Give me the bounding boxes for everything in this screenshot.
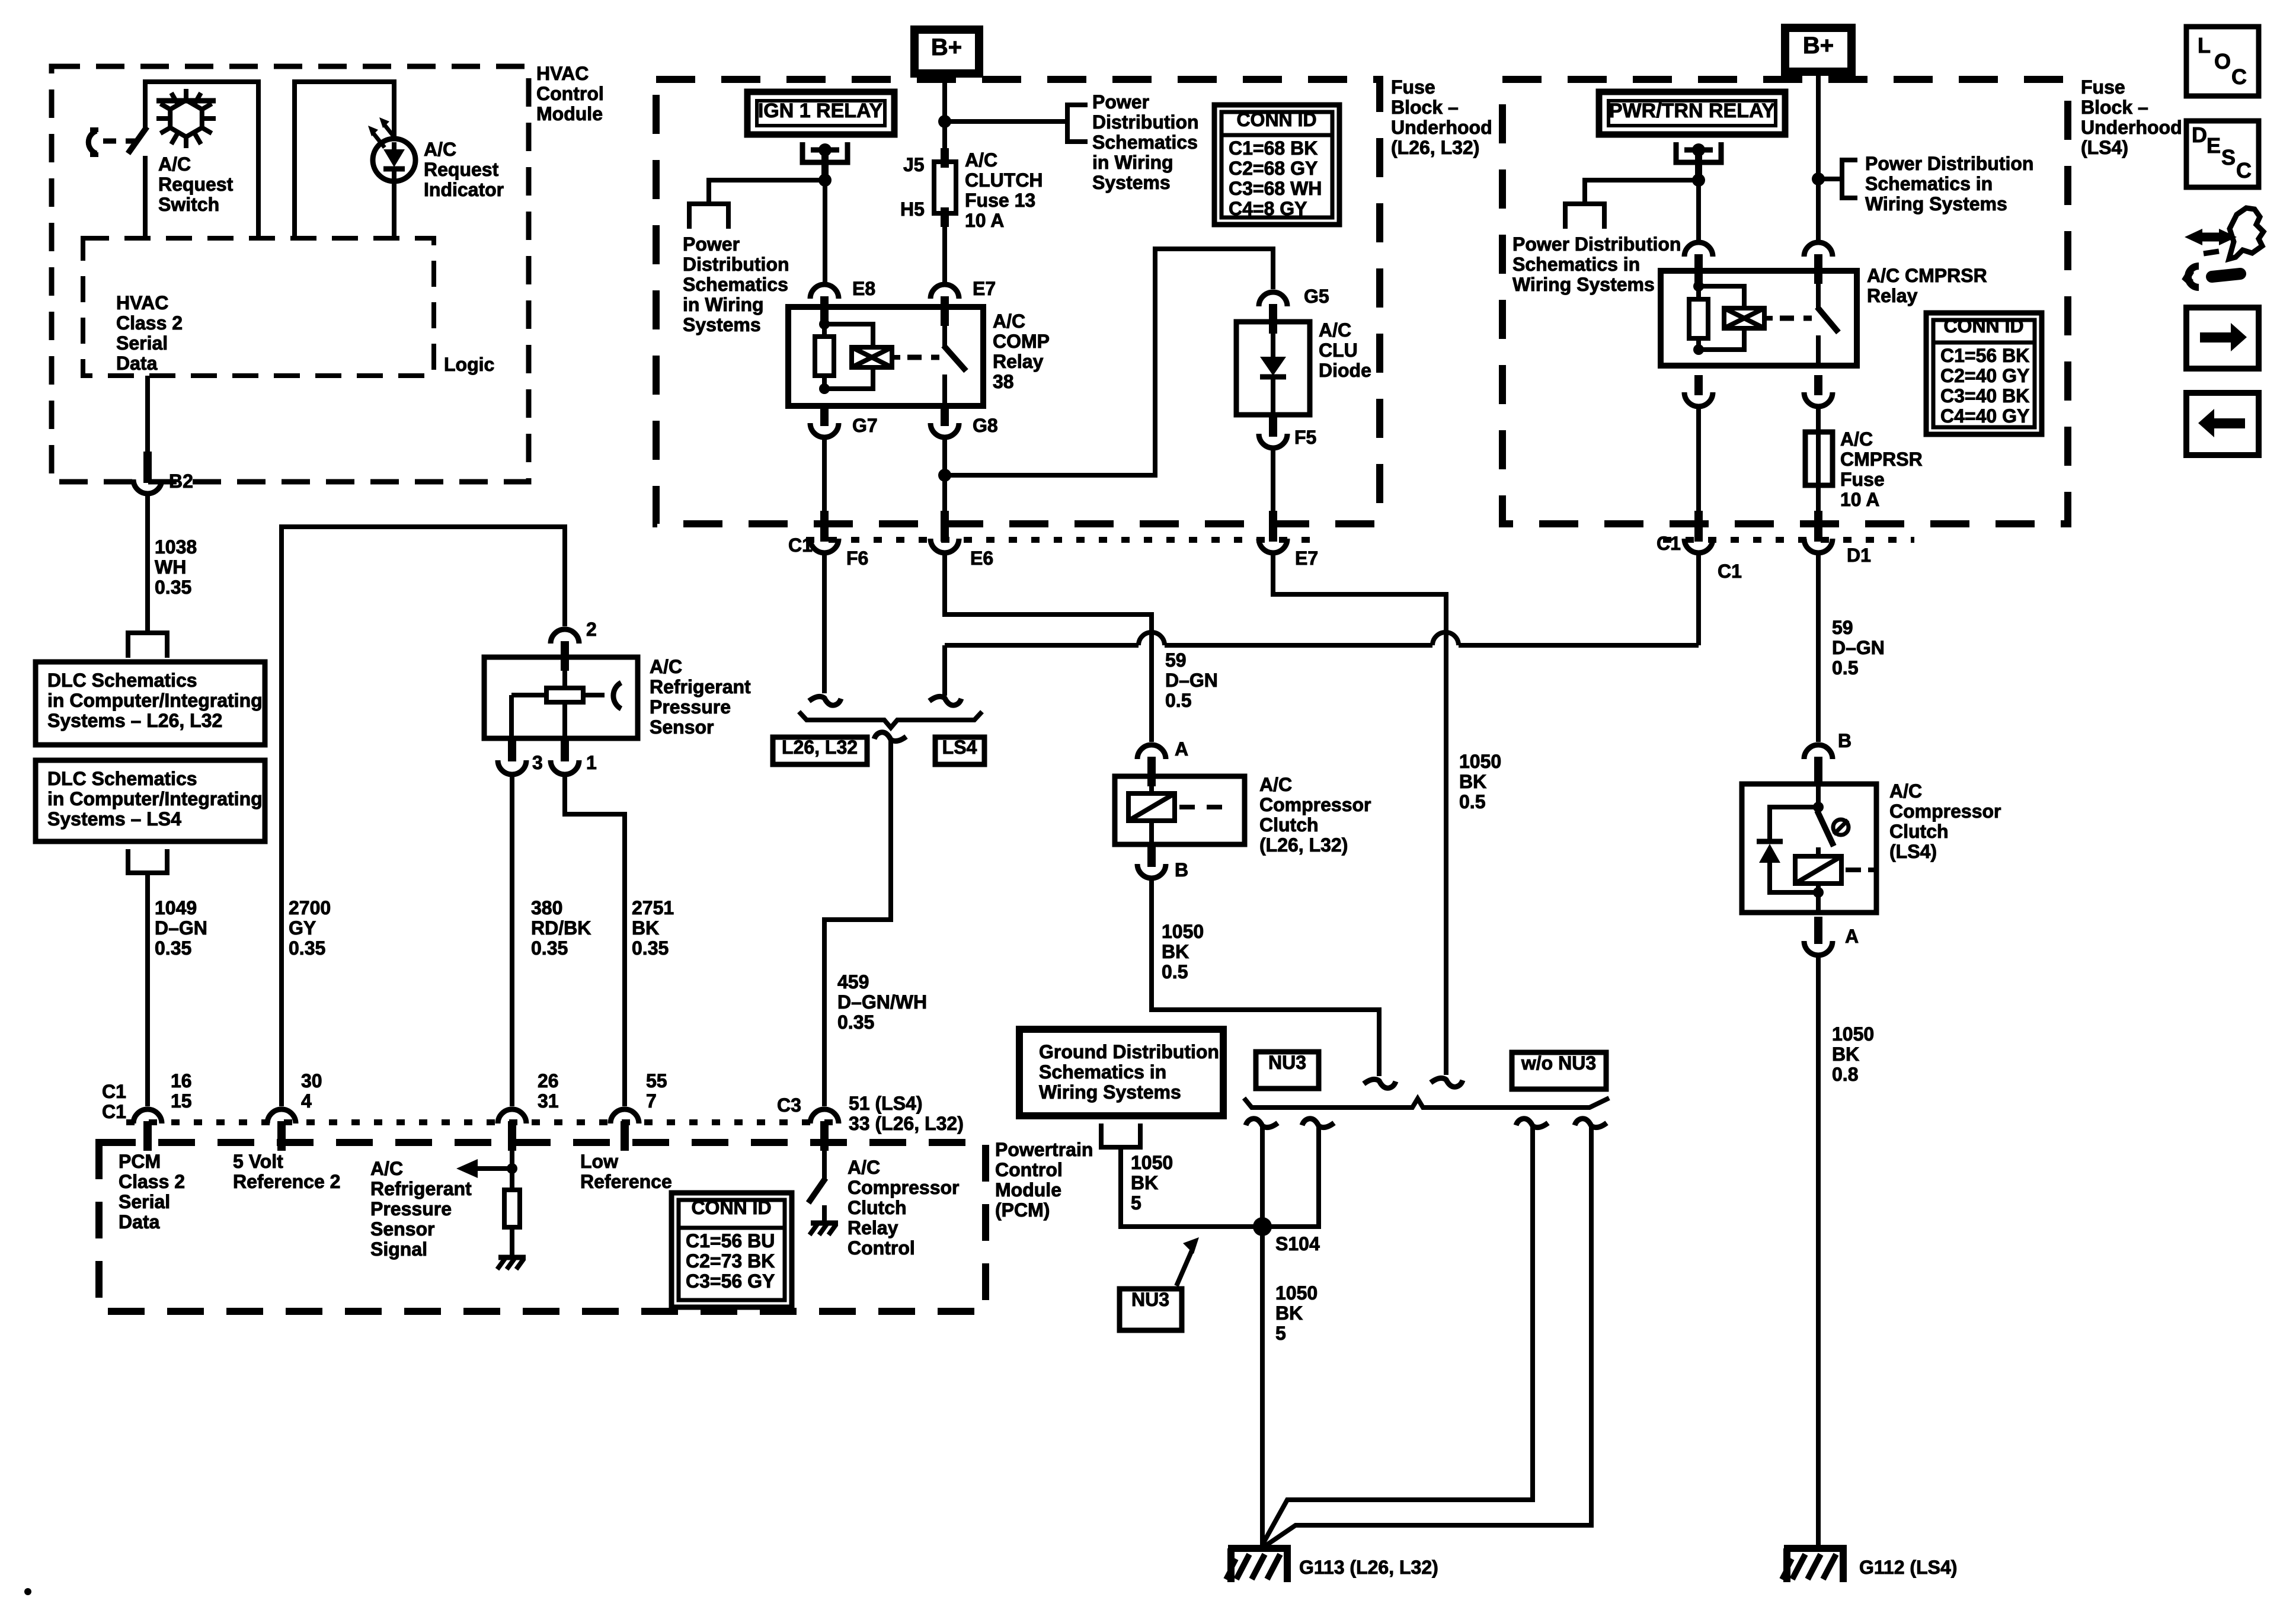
clutch LS4 coil: [1816, 847, 1821, 857]
svg-text:D1: D1: [1847, 545, 1871, 566]
ground G112: [1784, 1545, 1847, 1552]
svg-text:BK: BK: [1131, 1172, 1158, 1193]
brace NU3 selector: [1244, 1098, 1609, 1108]
svg-text:38: 38: [993, 371, 1014, 392]
svg-text:59: 59: [1832, 617, 1853, 638]
connector bracket power distribution B+: [1067, 105, 1088, 142]
svg-text:Class 2: Class 2: [119, 1171, 185, 1192]
svg-text:Underhood: Underhood: [1391, 117, 1492, 138]
HVAC Class 2 Serial Data logic dashed box: [83, 238, 434, 376]
svg-text:5: 5: [1275, 1323, 1286, 1344]
svg-text:L: L: [2198, 33, 2211, 57]
svg-text:A/C: A/C: [650, 656, 682, 677]
svg-text:C: C: [2231, 65, 2247, 89]
CONN ID box PCM: [671, 1193, 792, 1307]
svg-text:15: 15: [171, 1090, 192, 1112]
CMPRSR relay coil: [1693, 281, 1704, 292]
wire E7 to w/o NU3 1050 BK 0.5: [1273, 554, 1446, 1075]
svg-text:Wiring Systems: Wiring Systems: [1512, 274, 1655, 295]
svg-text:59: 59: [1165, 649, 1187, 671]
svg-text:HVAC: HVAC: [116, 292, 168, 313]
clutch coil L26: [1149, 786, 1154, 793]
pin C1 16/15 PCM: [143, 1121, 152, 1151]
connector hook F6 L26 L32: [809, 696, 841, 705]
connector row PCM: [126, 1119, 842, 1125]
svg-text:Signal: Signal: [370, 1238, 427, 1260]
PCM sensor signal arrow and resistor: [510, 1147, 514, 1190]
svg-text:in Wiring: in Wiring: [683, 294, 764, 315]
svg-text:51 (LS4): 51 (LS4): [849, 1093, 922, 1114]
svg-text:HVAC: HVAC: [536, 63, 589, 84]
svg-text:Control: Control: [848, 1237, 915, 1259]
svg-text:C2=40 GY: C2=40 GY: [1940, 365, 2029, 386]
svg-text:CONN ID: CONN ID: [1943, 315, 2023, 337]
icon wrench: [2186, 266, 2240, 287]
DLC Schematics box L26 L32: [36, 662, 265, 745]
svg-text:Schematics: Schematics: [683, 274, 788, 295]
svg-text:0.5: 0.5: [1162, 961, 1188, 982]
svg-text:Schematics in: Schematics in: [1512, 254, 1640, 275]
ground internal PCM sensor: [498, 1255, 526, 1260]
svg-text:(PCM): (PCM): [995, 1199, 1050, 1221]
clutch LS4 internal junction top: [1816, 786, 1821, 809]
svg-text:F6: F6: [846, 548, 868, 569]
svg-text:G5: G5: [1304, 286, 1329, 307]
connector bracket to DLC schematics: [128, 633, 167, 658]
connector row fuse block LS4 bottom: [1663, 537, 1914, 543]
svg-text:2: 2: [586, 619, 597, 640]
A/C Compressor Clutch LS4 box: [1742, 784, 1876, 913]
connector cup NU3 branch 2: [1302, 1119, 1334, 1128]
svg-text:Diode: Diode: [1319, 360, 1371, 381]
svg-text:3: 3: [532, 752, 543, 773]
svg-text:C: C: [2236, 158, 2252, 183]
svg-text:in Wiring: in Wiring: [1092, 152, 1173, 173]
svg-text:Underhood: Underhood: [2081, 117, 2182, 138]
svg-text:1050: 1050: [1459, 751, 1501, 772]
svg-text:C3: C3: [777, 1094, 801, 1116]
svg-text:(L26, L32): (L26, L32): [1391, 137, 1479, 158]
svg-text:DLC Schematics: DLC Schematics: [47, 670, 197, 691]
svg-text:Distribution: Distribution: [683, 254, 789, 275]
NU3 callout box with arrow: [1120, 1289, 1182, 1330]
clutch LS4 switch blade: [1817, 811, 1834, 846]
wire HVAC to B2: [145, 376, 150, 452]
svg-text:NU3: NU3: [1268, 1052, 1306, 1073]
Ground Distribution Schematics box: [1019, 1029, 1223, 1116]
wire 380 RD/BK 0.35: [510, 774, 514, 1106]
svg-text:Indicator: Indicator: [424, 179, 504, 200]
svg-text:BK: BK: [1162, 941, 1189, 962]
svg-text:1050: 1050: [1832, 1023, 1874, 1045]
svg-text:C1=56 BU: C1=56 BU: [686, 1230, 775, 1251]
svg-text:0.5: 0.5: [1832, 657, 1858, 678]
pin 26/31 PCM: [508, 1121, 516, 1151]
clutch LS4 thermal symbol: [1833, 820, 1849, 835]
ground G113: [1228, 1545, 1291, 1552]
clutch LS4 diode branch: [1770, 807, 1818, 841]
svg-text:B2: B2: [169, 470, 193, 492]
svg-text:0.35: 0.35: [632, 937, 669, 959]
wire G8 junction loop to diode G5: [945, 249, 1273, 475]
svg-text:0.35: 0.35: [289, 937, 325, 959]
svg-text:IGN 1 RELAY: IGN 1 RELAY: [758, 100, 883, 122]
svg-text:C4=8 GY: C4=8 GY: [1229, 198, 1307, 219]
svg-text:D: D: [2192, 123, 2207, 147]
svg-text:DLC Schematics: DLC Schematics: [47, 768, 197, 789]
svg-text:NU3: NU3: [1131, 1289, 1169, 1310]
svg-text:O: O: [2214, 49, 2231, 73]
svg-text:Compressor: Compressor: [1889, 801, 2001, 822]
svg-text:1049: 1049: [155, 897, 197, 918]
wire 2751 BK 0.35: [565, 774, 625, 1106]
svg-text:Module: Module: [536, 103, 603, 124]
pin B2: [143, 452, 152, 483]
wire 2700 GY 0.35: [282, 527, 565, 1106]
svg-text:Pressure: Pressure: [650, 696, 731, 718]
svg-text:1038: 1038: [155, 536, 197, 558]
pin switch bottom CMPRSR relay: [1814, 375, 1822, 395]
svg-text:0.5: 0.5: [1459, 791, 1485, 812]
B+ battery feed terminal: [914, 30, 979, 73]
wire NU3 branch 2: [1262, 1126, 1319, 1227]
A/C CLU Diode box: [1236, 322, 1310, 415]
svg-text:0.35: 0.35: [155, 577, 191, 598]
pin C3 51/33 PCM: [820, 1121, 829, 1151]
svg-text:0.35: 0.35: [531, 937, 568, 959]
svg-text:BK: BK: [1275, 1302, 1303, 1324]
svg-text:Compressor: Compressor: [848, 1177, 960, 1198]
junction PWR/TRN to power distribution: [1692, 174, 1705, 187]
pin E7 relay: [941, 296, 949, 326]
IGN 1 relay feed bracket: [802, 142, 848, 162]
wire 1050 BK 5 to G113: [1260, 1227, 1265, 1548]
fuse F13 A/C CLUTCH 10A: [941, 148, 949, 168]
svg-text:Relay: Relay: [848, 1217, 898, 1238]
svg-text:Clutch: Clutch: [1889, 821, 1949, 842]
wire G7 to F6: [822, 438, 827, 512]
svg-text:Schematics in: Schematics in: [1039, 1061, 1166, 1083]
icon arrow right box: [2186, 308, 2259, 369]
CONN ID box fuse block LS4: [1926, 313, 2042, 434]
svg-text:F5: F5: [1294, 427, 1316, 448]
diode CR1 symbol: [1271, 334, 1275, 357]
label A/C Request Switch: [158, 153, 234, 215]
A/C Refrigerant Pressure Sensor B1 box: [484, 657, 638, 738]
svg-text:CONN ID: CONN ID: [691, 1197, 771, 1218]
w/o NU3 label box: [1512, 1052, 1606, 1089]
svg-text:E6: E6: [970, 548, 993, 569]
svg-text:G112 (LS4): G112 (LS4): [1859, 1557, 1957, 1578]
svg-text:A/C: A/C: [1319, 319, 1351, 341]
svg-text:10 A: 10 A: [965, 210, 1004, 231]
svg-text:B+: B+: [931, 34, 962, 60]
svg-text:Control: Control: [995, 1159, 1063, 1180]
svg-text:Pressure: Pressure: [370, 1198, 452, 1219]
pin D1: [1814, 511, 1822, 542]
pin 2 of pressure sensor: [561, 641, 569, 671]
svg-text:C3=68 WH: C3=68 WH: [1229, 178, 1322, 199]
svg-text:Schematics: Schematics: [1092, 132, 1198, 153]
label 59 D-GN 0.5 left: [1165, 649, 1218, 711]
wire B+ LS4 down: [1816, 72, 1821, 241]
svg-text:2700: 2700: [289, 897, 331, 918]
connector cup w/o NU3 branch 1: [1516, 1119, 1548, 1128]
NU3 label box: [1256, 1052, 1319, 1089]
svg-text:Distribution: Distribution: [1092, 111, 1199, 133]
A/C CMPRSR Relay box: [1661, 271, 1857, 366]
svg-text:Request: Request: [424, 159, 499, 180]
relay switch contact: [942, 307, 947, 347]
pin B compressor clutch L26: [1147, 843, 1156, 867]
svg-text:L26, L32: L26, L32: [782, 737, 858, 758]
relay armature box: [852, 347, 892, 367]
svg-text:Request: Request: [158, 174, 234, 195]
svg-text:in Computer/Integrating: in Computer/Integrating: [47, 690, 263, 711]
svg-text:31: 31: [538, 1090, 559, 1112]
pin 3 of pressure sensor: [508, 738, 516, 761]
svg-text:Low: Low: [580, 1151, 618, 1172]
svg-text:Power: Power: [683, 233, 740, 255]
wire F6 stub to brace: [822, 554, 827, 693]
svg-text:Relay: Relay: [1867, 285, 1918, 306]
svg-text:Module: Module: [995, 1179, 1061, 1201]
CMPRSR relay switch contact: [1816, 271, 1821, 308]
label HVAC Control Module: [536, 63, 604, 124]
label box L26 L32: [773, 737, 867, 764]
A/C Request Indicator box: [295, 82, 394, 238]
CONN ID box fuse block L26 L32: [1214, 105, 1339, 225]
svg-text:Control: Control: [536, 83, 604, 104]
wire F5 to E7 bottom: [1271, 449, 1275, 512]
svg-text:Systems – LS4: Systems – LS4: [47, 808, 181, 830]
pin G8: [941, 406, 949, 426]
connector bracket ground distribution: [1101, 1124, 1140, 1147]
svg-text:D–GN: D–GN: [155, 917, 207, 939]
pin E7 bottom: [1269, 511, 1277, 542]
svg-text:PWR/TRN RELAY: PWR/TRN RELAY: [1609, 100, 1776, 122]
svg-text:7: 7: [646, 1090, 657, 1112]
pin 1 of pressure sensor: [561, 738, 569, 761]
svg-text:Wiring Systems: Wiring Systems: [1039, 1081, 1181, 1103]
sensor pressure port symbol: [613, 683, 621, 709]
svg-text:Power Distribution: Power Distribution: [1512, 233, 1681, 255]
snowflake icon: [156, 89, 216, 148]
svg-text:2751: 2751: [632, 897, 674, 918]
svg-text:A/C CMPRSR: A/C CMPRSR: [1867, 265, 1987, 286]
switch S1 blade: [128, 127, 147, 153]
svg-text:Systems – L26, L32: Systems – L26, L32: [47, 710, 222, 731]
pin A compressor clutch LS4: [1814, 917, 1822, 944]
svg-text:0.35: 0.35: [837, 1012, 874, 1033]
svg-text:C1=56 BK: C1=56 BK: [1940, 345, 2029, 366]
label A/C Request Indicator: [424, 139, 504, 200]
svg-text:S: S: [2221, 145, 2236, 169]
B+ battery feed terminal LS4: [1785, 28, 1851, 72]
svg-text:A/C: A/C: [848, 1157, 880, 1178]
svg-text:10 A: 10 A: [1840, 489, 1879, 510]
svg-text:(LS4): (LS4): [2081, 137, 2128, 158]
svg-text:459: 459: [837, 971, 869, 993]
PWR/TRN relay feed bracket: [1676, 142, 1721, 162]
LED light arrows: [368, 117, 396, 148]
connector cup w/o NU3 branch 2: [1575, 1119, 1607, 1128]
Fuse Block Underhood LS4 dashed box: [1502, 79, 2068, 524]
svg-text:Clutch: Clutch: [848, 1197, 907, 1218]
svg-text:1050: 1050: [1131, 1152, 1173, 1173]
wire B+ to fuse 13: [942, 73, 947, 162]
svg-text:BK: BK: [1459, 771, 1486, 792]
HVAC Control Module dashed box: [52, 66, 529, 482]
CMPRSR relay dashed actuator link: [1780, 316, 1812, 321]
svg-text:B: B: [1175, 859, 1188, 881]
scan speck: [24, 1588, 31, 1595]
svg-text:Wiring Systems: Wiring Systems: [1865, 193, 2007, 215]
svg-text:33 (L26, L32): 33 (L26, L32): [849, 1113, 964, 1134]
svg-text:WH: WH: [155, 556, 186, 578]
pin 55/7 PCM: [621, 1121, 629, 1151]
svg-text:Block –: Block –: [2081, 97, 2148, 118]
svg-text:E8: E8: [852, 278, 875, 299]
svg-text:C1: C1: [102, 1101, 126, 1122]
svg-text:CLUTCH: CLUTCH: [965, 169, 1043, 191]
pin B compressor clutch LS4: [1814, 757, 1822, 786]
connector bracket power distribution PWR/TRN: [1565, 204, 1604, 229]
svg-text:C2=73 BK: C2=73 BK: [686, 1250, 775, 1272]
svg-text:C1: C1: [102, 1081, 126, 1102]
connector hook 459 wire: [874, 732, 906, 741]
pin E8: [820, 296, 829, 326]
icon DESC box: [2186, 121, 2259, 187]
svg-text:C1: C1: [1657, 533, 1681, 554]
svg-text:30: 30: [301, 1070, 322, 1092]
svg-text:1050: 1050: [1275, 1282, 1318, 1304]
svg-text:A: A: [1175, 738, 1188, 760]
relay dashed actuator link: [907, 355, 939, 360]
svg-text:C3=56 GY: C3=56 GY: [686, 1270, 775, 1292]
pin F6: [820, 511, 829, 542]
DLC Schematics box LS4: [36, 760, 265, 841]
A/C Request Switch box: [145, 82, 258, 238]
svg-text:H5: H5: [900, 199, 925, 220]
PWR/TRN RELAY label box: [1599, 92, 1785, 135]
svg-text:Logic: Logic: [444, 354, 494, 375]
svg-text:Reference 2: Reference 2: [233, 1171, 340, 1192]
svg-text:A/C: A/C: [1840, 428, 1873, 450]
Fuse Block Underhood L26 L32 dashed box: [656, 79, 1380, 524]
svg-text:A/C: A/C: [424, 139, 456, 160]
svg-text:Serial: Serial: [119, 1191, 170, 1212]
wire 59 D-GN 0.5 right: [1816, 554, 1821, 742]
svg-text:Switch: Switch: [158, 194, 219, 215]
svg-text:C1: C1: [1718, 561, 1742, 582]
connector cup NU3 branch 1: [1246, 1119, 1278, 1128]
icon arrow left box: [2186, 393, 2259, 455]
wire w/o NU3 branch 2 to G113: [1264, 1126, 1591, 1547]
svg-text:G113 (L26, L32): G113 (L26, L32): [1299, 1557, 1438, 1578]
wire 1038 WH 0.35: [145, 494, 150, 632]
svg-text:0.8: 0.8: [1832, 1064, 1858, 1085]
wire E6 to compressor clutch A: [945, 554, 1152, 742]
svg-text:Refrigerant: Refrigerant: [650, 676, 751, 697]
LED D1 indicator: [373, 139, 415, 181]
svg-text:55: 55: [646, 1070, 667, 1092]
svg-text:5: 5: [1131, 1192, 1141, 1214]
wire LS4 stub from PWR/TRN C1: [929, 696, 961, 705]
svg-text:16: 16: [171, 1070, 192, 1092]
svg-text:B+: B+: [1803, 33, 1834, 59]
svg-text:A: A: [1845, 926, 1859, 947]
svg-text:LS4: LS4: [942, 737, 977, 758]
connector bracket power distribution left: [689, 204, 728, 229]
pin 30/4 PCM: [277, 1121, 286, 1151]
A/C COMP Relay 38 box: [788, 307, 983, 406]
svg-text:1: 1: [586, 752, 597, 773]
svg-text:w/o NU3: w/o NU3: [1521, 1052, 1596, 1074]
svg-text:BK: BK: [1832, 1044, 1859, 1065]
svg-text:Systems: Systems: [683, 314, 761, 335]
svg-text:A/C: A/C: [993, 311, 1025, 332]
svg-text:J5: J5: [903, 154, 925, 175]
svg-text:Sensor: Sensor: [370, 1218, 434, 1240]
pin A compressor clutch L26: [1147, 757, 1156, 786]
svg-text:0.35: 0.35: [155, 937, 191, 959]
CMPRSR relay armature box: [1724, 308, 1764, 328]
fuse A/C CMPRSR 10A: [1816, 408, 1821, 512]
sensor internal resistor: [562, 670, 567, 688]
pin G5: [1269, 304, 1277, 334]
wire NU3 branch 1: [1260, 1126, 1265, 1227]
connector row C1 fuse block bottom: [806, 537, 1322, 543]
connector bracket below DLC: [128, 849, 167, 873]
svg-text:G7: G7: [852, 415, 878, 436]
svg-text:5 Volt: 5 Volt: [233, 1151, 283, 1172]
svg-text:E7: E7: [973, 278, 996, 299]
svg-text:CMPRSR: CMPRSR: [1840, 449, 1923, 470]
relay coil: [819, 319, 830, 329]
pin switch top A/C CMPRSR relay: [1814, 254, 1822, 284]
svg-text:D–GN: D–GN: [1165, 670, 1218, 691]
icon hand with wrench: [2185, 208, 2263, 259]
IGN 1 RELAY label box: [747, 92, 894, 135]
icon LOC box: [2186, 27, 2259, 96]
svg-text:Data: Data: [116, 353, 158, 374]
svg-text:Power: Power: [1092, 91, 1149, 113]
label box LS4: [935, 737, 984, 764]
svg-text:Fuse: Fuse: [1840, 469, 1885, 490]
svg-text:G8: G8: [973, 415, 998, 436]
junction below G8: [938, 469, 951, 482]
switch dashed link: [103, 139, 141, 144]
pin F5: [1269, 417, 1277, 437]
svg-text:A/C: A/C: [1259, 774, 1292, 795]
svg-text:Class 2: Class 2: [116, 312, 183, 334]
pin E6: [941, 511, 949, 542]
wire G8 down with junction: [942, 438, 947, 512]
svg-text:Schematics in: Schematics in: [1865, 173, 1993, 194]
svg-text:Powertrain: Powertrain: [995, 1139, 1093, 1160]
connector bracket power distribution B+ LS4: [1842, 160, 1857, 198]
A/C Compressor Clutch L26 L32 box: [1115, 776, 1245, 844]
svg-text:4: 4: [301, 1090, 312, 1112]
svg-text:Systems: Systems: [1092, 172, 1171, 193]
svg-text:E: E: [2207, 133, 2221, 158]
svg-text:PCM: PCM: [119, 1151, 161, 1172]
wire CMPRSR relay C1 down: [1696, 408, 1701, 512]
svg-text:Data: Data: [119, 1211, 160, 1233]
wire 1049 D-GN 0.35: [145, 873, 150, 1106]
svg-text:CLU: CLU: [1319, 340, 1358, 361]
